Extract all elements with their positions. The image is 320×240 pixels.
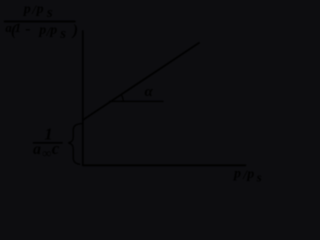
svg-text:s: s [46,5,53,21]
sloped isotherm line [83,43,200,121]
svg-text:∞: ∞ [42,145,51,160]
angle horizontal reference line [109,100,164,102]
svg-text:a: a [33,141,41,158]
svg-text:s: s [59,26,66,42]
svg-text:p: p [38,23,46,38]
y-axis label fraction bar [4,21,76,23]
svg-text:c: c [52,139,60,158]
svg-text:s: s [256,169,262,184]
x-axis [82,164,246,166]
brace marking intercept segment [68,124,82,165]
svg-text:p: p [36,2,44,17]
y-axis label numerator p/p_s [23,2,53,21]
intercept fraction denominator a_inf c [33,139,60,160]
svg-text:α: α [145,84,154,100]
angle arc [122,95,124,101]
y-axis [82,30,84,165]
svg-text:p: p [233,167,241,182]
intercept fraction bar [33,142,63,144]
svg-text:p: p [246,167,254,182]
svg-text:): ) [71,22,78,39]
svg-text:p: p [23,2,31,17]
svg-text:1: 1 [15,20,22,35]
svg-text:p: p [49,23,57,38]
x-axis label p/p_s [233,167,262,185]
y-axis label denominator a(1 - p/p_s) [5,20,78,42]
svg-text:-: - [25,21,30,38]
